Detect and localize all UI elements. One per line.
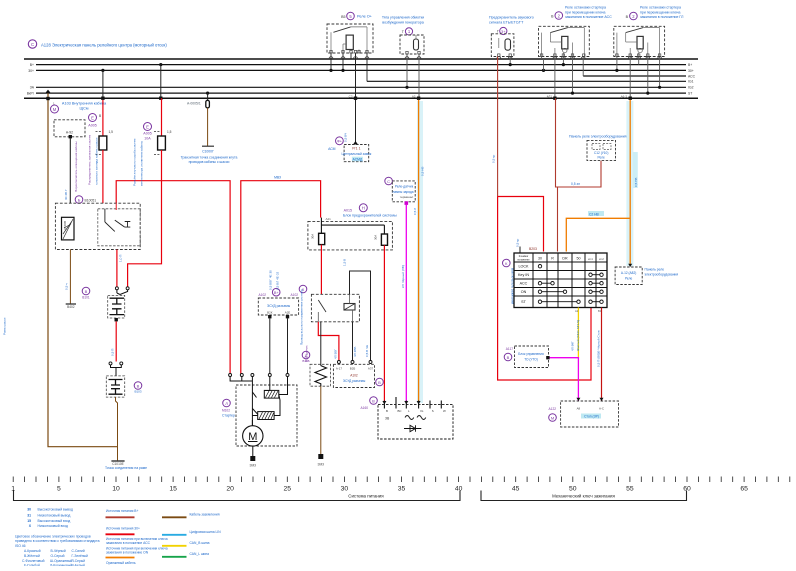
svg-text:В103: В103 (134, 390, 141, 394)
box T label (1) (382, 16, 424, 36)
table header texts (517, 255, 604, 261)
svg-text:МВЗ: МВЗ (274, 175, 281, 179)
node dots relay R1 (329, 69, 332, 72)
svg-text:А8: А8 (577, 407, 581, 411)
table row labels (518, 265, 529, 305)
relay R3 box (614, 26, 665, 56)
svg-text:Е: Е (91, 116, 94, 121)
svg-text:А-12 (А82): А-12 (А82) (621, 271, 636, 275)
svg-text:возбуждения генератора: возбуждения генератора (382, 21, 423, 25)
svg-text:Провод высокого напряжения сис: Провод высокого напряжения системы (300, 288, 304, 345)
svg-text:4Л 98Г: 4Л 98Г (571, 341, 575, 351)
relay R3 label (626, 6, 685, 20)
relay R1 pin stubs to buses (331, 53, 367, 81)
connector box A-92 (54, 120, 85, 137)
wire red horizontal feed (116, 181, 230, 374)
generator box (378, 397, 453, 439)
svg-text:В5: В5 (341, 15, 345, 19)
starter box (236, 385, 297, 446)
svg-text:А2Е: А2Е (285, 311, 291, 315)
svg-text:ЗА: ЗА (30, 86, 35, 90)
svg-text:ЗВ: ЗВ (385, 417, 390, 421)
svg-text:М: М (53, 107, 57, 112)
svg-text:30: 30 (27, 507, 31, 511)
svg-text:15: 15 (27, 519, 31, 523)
box T pin stubs (407, 54, 419, 98)
svg-text:Цифровая шина LIN: Цифровая шина LIN (190, 530, 222, 534)
crossing hops on L1 (329, 57, 662, 59)
svg-text:Key IN: Key IN (518, 273, 529, 277)
legend colour table (22, 549, 88, 567)
svg-text:3+: 3+ (501, 29, 506, 34)
relay A102 box (311, 294, 359, 322)
svg-text:Панель реле: Панель реле (645, 268, 665, 272)
svg-text:4Л1: 4Л1 (547, 95, 553, 99)
fuse F1 body (99, 136, 107, 150)
svg-text:А122: А122 (549, 407, 557, 411)
svg-text:Ш-Оранжевый: Ш-Оранжевый (50, 559, 72, 563)
wire red B101 to C101 (115, 321, 117, 361)
ground point C1010E (111, 460, 124, 462)
svg-text:ON: ON (521, 290, 527, 294)
svg-text:А160: А160 (361, 406, 369, 410)
svg-text:S: S (432, 409, 434, 413)
fuse F2 body (158, 136, 166, 150)
svg-text:4Л 5ВГ: 4Л 5ВГ (334, 349, 338, 359)
ECU connector A102 box (333, 361, 383, 388)
svg-text:А128 Электрическая панель рел: А128 Электрическая панель релейного цент… (41, 43, 167, 48)
svg-text:САN_L шина: САN_L шина (190, 552, 210, 556)
svg-text:Разъём жгутового короба систем: Разъём жгутового короба систем (133, 139, 137, 186)
svg-text:АСМД: АСМД (353, 157, 363, 161)
svg-text:Высокотоковый вход: Высокотоковый вход (38, 519, 71, 523)
starter M102 label (222, 399, 235, 417)
relay R1 box (327, 24, 373, 53)
svg-text:зажигания в положение АСС: зажигания в положение АСС (565, 15, 612, 19)
svg-text:ЭСУД разъемы: ЭСУД разъемы (343, 379, 366, 383)
connector B101 (82, 287, 129, 322)
bus line L3 30+ (36, 69, 686, 71)
svg-text:Ф+: Ф+ (337, 140, 343, 144)
svg-text:40: 40 (455, 486, 463, 493)
svg-text:Рама шасси: Рама шасси (3, 317, 7, 335)
svg-text:вентилятора отопителя кабины: вентилятора отопителя кабины (140, 140, 144, 186)
svg-text:DR: DR (562, 257, 568, 261)
wire coil to A37 (350, 271, 371, 361)
svg-text:Б: Б (78, 197, 81, 202)
starter motor M (243, 420, 263, 446)
svg-text:45: 45 (512, 486, 520, 493)
ignition key table label (503, 247, 538, 305)
wire brown to C1000G (207, 108, 209, 146)
svg-text:А117: А117 (506, 347, 513, 351)
svg-text:Низкотоковый вход: Низкотоковый вход (38, 524, 68, 528)
svg-text:лампы заряда: лампы заряда (392, 190, 413, 194)
svg-text:W: W (443, 409, 446, 413)
svg-text:0,5 НВ: 0,5 НВ (634, 178, 638, 187)
svg-text:терминал: терминал (400, 195, 414, 199)
svg-text:кл.1: кл.1 (588, 258, 593, 261)
svg-text:0,5 В ЧЕ: 0,5 В ЧЕ (365, 345, 369, 357)
svg-text:Г: Г (497, 30, 499, 34)
wire red A015 to generator B (383, 245, 385, 401)
svg-text:КЛ Чёрный (ЛВ): КЛ Чёрный (ЛВ) (401, 265, 405, 288)
bus line L7 ST (36, 92, 686, 94)
ruler numbers (11, 486, 748, 493)
wire red A015 to relay A102 (320, 245, 322, 295)
svg-text:30: 30 (538, 257, 542, 261)
bus line L8 bottom (24, 97, 698, 99)
legend terminal list (27, 507, 73, 528)
svg-text:В101: В101 (82, 296, 90, 300)
highlight band orange IG wire (417, 101, 423, 403)
svg-text:10: 10 (112, 486, 120, 493)
svg-text:ВС: ВС (398, 409, 402, 413)
svg-text:головного взгляда кабины шасси: головного взгляда кабины шасси (95, 137, 99, 185)
svg-text:25: 25 (284, 486, 292, 493)
svg-text:30+: 30+ (28, 69, 34, 73)
svg-text:А-92: А-92 (66, 131, 73, 135)
svg-text:О-Серый: О-Серый (51, 554, 65, 558)
svg-text:сигнала ЕТЬ/ЕТС/ГТ: сигнала ЕТЬ/ЕТС/ГТ (489, 21, 524, 25)
svg-text:ЩСм: ЩСм (80, 107, 89, 111)
svg-text:60: 60 (683, 486, 691, 493)
svg-text:А-17: А-17 (336, 367, 342, 371)
svg-text:5: 5 (57, 486, 61, 493)
svg-text:Точка соединения на раме: Точка соединения на раме (105, 466, 147, 470)
svg-text:приведено в соответствии с тр: приведено в соответствии с требованиями … (15, 539, 100, 543)
svg-text:ТО (УТО): ТО (УТО) (524, 358, 538, 362)
svg-text:ЭСУД разъемы: ЭСУД разъемы (267, 304, 291, 308)
fuse block A015 label (343, 204, 397, 218)
generator A160 label (361, 397, 378, 410)
svg-text:Переключатель освещения кабины: Переключатель освещения кабины (74, 140, 78, 192)
svg-text:АСМ: АСМ (328, 147, 336, 151)
svg-text:30+: 30+ (688, 69, 694, 73)
svg-text:Источник питания В+: Источник питания В+ (106, 509, 138, 513)
svg-text:А102: А102 (291, 293, 299, 297)
svg-text:В1: В1 (598, 309, 602, 313)
svg-text:ЗМЗ: ЗМЗ (318, 463, 325, 467)
svg-text:Реле остановки стартера: Реле остановки стартера (565, 6, 606, 10)
svg-text:0,5 ВВГ 4Е 30: 0,5 ВВГ 4Е 30 (269, 270, 273, 290)
svg-text:С12 (У10): С12 (У10) (594, 151, 608, 155)
bracket ignition key (481, 491, 687, 501)
relay R1 "Реле О+" label (341, 12, 373, 20)
svg-text:Распределитель зажигания систе: Распределитель зажигания систем (88, 135, 92, 185)
svg-text:В: В (99, 114, 101, 118)
svg-text:Стартер: Стартер (222, 414, 235, 418)
svg-text:10А: 10А (144, 137, 151, 141)
bus labels right (688, 63, 696, 96)
ruler ticks (13, 477, 790, 483)
svg-text:Стоп (ЗР): Стоп (ЗР) (584, 415, 599, 419)
svg-text:С-Синий: С-Синий (72, 549, 85, 553)
svg-text:А102: А102 (350, 374, 358, 378)
svg-text:А5: А5 (412, 95, 416, 99)
svg-text:В: В (85, 289, 88, 294)
generator terminal arrows (382, 401, 420, 404)
svg-text:С: С (387, 179, 390, 184)
fuse box 3+ (491, 34, 514, 57)
starter solenoid winding 2 (258, 412, 274, 420)
wire red to key switch 30 (498, 197, 591, 381)
svg-text:20: 20 (226, 486, 234, 493)
connector Pr1 box (ACMD) (328, 137, 372, 162)
svg-text:0,5 ВЛ 4Е 02: 0,5 ВЛ 4Е 02 (276, 272, 280, 290)
ESUD connector box upper (258, 288, 298, 315)
bus line L4 ACC (583, 75, 686, 77)
svg-text:зажигания в положение ГЛ: зажигания в положение ГЛ (640, 15, 684, 19)
svg-text:Реле остановки стартера: Реле остановки стартера (640, 6, 681, 10)
svg-text:С3: С3 (349, 95, 353, 99)
svg-text:В+: В+ (30, 63, 34, 67)
svg-text:кл.2: кл.2 (599, 258, 604, 261)
control unit A117 (504, 346, 549, 368)
svg-text:А015: А015 (344, 208, 352, 212)
wire maroon key to stop box (601, 308, 603, 402)
svg-text:Предохранитель звукового: Предохранитель звукового (489, 16, 534, 20)
svg-text:Источник питания 30+: Источник питания 30+ (106, 526, 140, 530)
wire red main loop to fuse block A015 (241, 181, 321, 374)
svg-text:проводов кабины с шасси: проводов кабины с шасси (189, 160, 230, 164)
svg-text:А2: А2 (575, 309, 579, 313)
svg-text:Тяга управления обмотки: Тяга управления обмотки (382, 16, 424, 20)
wire black from A-92 (69, 138, 71, 203)
wire to Pr1 connector (355, 53, 357, 144)
svg-text:Механический ключ зажигания: Механический ключ зажигания (552, 494, 615, 499)
wire maroon horn fuse drop (497, 57, 499, 197)
bracket power system (14, 491, 461, 501)
svg-text:R: R (551, 257, 554, 261)
svg-text:В: В (372, 398, 375, 403)
svg-text:Желтый (ST#1 ST1.5): Желтый (ST#1 ST1.5) (576, 320, 580, 351)
regulator box C (385, 177, 415, 202)
svg-text:1,5: 1,5 (109, 130, 114, 134)
svg-text:А-Красный: А-Красный (24, 549, 41, 553)
svg-text:В2К: В2К (267, 311, 273, 315)
connector C101 (106, 359, 142, 397)
stop box A122 (549, 398, 619, 427)
svg-text:Транзитная точка соединения жг: Транзитная точка соединения жгута (181, 156, 238, 160)
legend wire samples column 3 (162, 512, 221, 556)
svg-text:В402: В402 (67, 305, 75, 309)
bus line L5 IG1 (367, 80, 686, 82)
svg-text:ВкРг: ВкРг (27, 92, 35, 96)
svg-text:Высокотоковый вывод: Высокотоковый вывод (38, 507, 73, 511)
legend colour code note (15, 534, 100, 548)
svg-text:30А: 30А (311, 234, 315, 239)
svg-text:В203: В203 (529, 247, 537, 251)
contact block hatched (62, 217, 75, 240)
fuse F1 A005 15A label (88, 114, 101, 128)
legend wire samples column 2 (106, 509, 168, 565)
fuse F2 A005 10A label (143, 123, 151, 141)
svg-text:В: В (507, 355, 510, 360)
svg-text:ЗМЗ: ЗМЗ (250, 464, 257, 468)
svg-text:ST: ST (521, 300, 526, 304)
starter internal wiring (230, 377, 287, 427)
svg-text:С2 НВ: С2 НВ (589, 212, 600, 216)
pin marks on component bottoms (330, 50, 661, 56)
svg-text:30: 30 (341, 486, 349, 493)
svg-text:положение: положение (517, 259, 530, 262)
svg-text:А-0005/1: А-0005/1 (187, 102, 201, 106)
table contacts (538, 265, 603, 304)
fuse A-0005/1 on ST wire (206, 92, 209, 95)
svg-text:М: М (551, 415, 554, 420)
wire red fuse F1 drop (101, 69, 104, 72)
svg-text:50: 50 (577, 257, 581, 261)
wire brown to frame point (116, 397, 118, 460)
svg-text:электрооборудования: электрооборудования (645, 272, 679, 276)
wire orange bus to generator IG (418, 100, 420, 401)
ignition switch assembly box B10051 (75, 196, 96, 204)
svg-text:31: 31 (27, 514, 31, 518)
starter terminals (229, 374, 289, 377)
relay panel C12 box (587, 140, 616, 160)
svg-text:Н: Н (362, 206, 365, 211)
svg-text:РТС датчик: РТС датчик (305, 345, 309, 362)
svg-text:при перемещении ключа: при перемещении ключа (565, 10, 605, 14)
wire orange A6-3 (629, 100, 631, 264)
svg-text:50: 50 (569, 486, 577, 493)
svg-text:LOCK: LOCK (518, 265, 529, 269)
svg-text:В+: В+ (688, 63, 692, 67)
wire B2B black (352, 322, 354, 361)
svg-text:30 4В·Г: 30 4В·Г (64, 189, 68, 200)
wire resistor to ground (320, 386, 322, 454)
bus line L6 IG2 (36, 86, 686, 88)
fuse block A015 box (308, 221, 393, 250)
svg-text:зажигания в положение АСС: зажигания в положение АСС (106, 541, 151, 545)
svg-text:В-Чёрный: В-Чёрный (51, 549, 66, 553)
wire brown frame ground left (45, 90, 117, 447)
fuse box 3+ pin stubs (509, 57, 511, 65)
wire magenta to stop box (549, 358, 579, 401)
svg-text:0,5 П (ВВ)В Чёрный Стоп: 0,5 П (ВВ)В Чёрный Стоп (597, 330, 601, 367)
svg-text:САN_В шина: САN_В шина (190, 541, 210, 545)
svg-text:0,5 ВЧ: 0,5 ВЧ (344, 133, 348, 142)
relay box A-12 (615, 264, 678, 285)
relay R2 pin stubs (542, 57, 584, 99)
svg-text:Реле О+: Реле О+ (357, 15, 373, 19)
svg-text:Кабель заземления: Кабель заземления (190, 512, 220, 516)
svg-text:зажигания в положение ОN: зажигания в положение ОN (106, 551, 149, 555)
svg-text:А37: А37 (368, 367, 374, 371)
svg-text:А21: А21 (326, 217, 332, 221)
svg-text:А005: А005 (88, 124, 96, 128)
bus line L2 B+ (36, 64, 686, 66)
svg-text:Оранжевый кабель: Оранжевый кабель (106, 561, 136, 565)
svg-text:Блок управления: Блок управления (518, 352, 544, 356)
relay A102 label (291, 285, 307, 297)
svg-text:С-Фиолетовый: С-Фиолетовый (22, 559, 45, 563)
svg-text:0,5 ч: 0,5 ч (65, 283, 69, 290)
starter ground (252, 446, 254, 456)
wire relay to resistor black (320, 322, 322, 365)
svg-text:М102: М102 (222, 409, 230, 413)
svg-text:Реле: Реле (598, 156, 606, 160)
svg-text:АСС: АСС (520, 282, 528, 286)
svg-text:Л-Серый: Л-Серый (72, 559, 86, 563)
svg-text:В: В (386, 409, 388, 413)
relay R2 label (551, 6, 612, 20)
wires ESUD to starter (268, 315, 271, 318)
fuse 30A left (319, 233, 325, 244)
svg-text:Рг1 1: Рг1 1 (352, 146, 360, 150)
svg-text:Система питания: Система питания (348, 494, 384, 499)
wire orange branch to key DR (566, 218, 630, 251)
svg-text:В: В (137, 383, 140, 388)
svg-text:0,5 зл: 0,5 зл (571, 182, 580, 186)
wire red F2 to loop (128, 150, 162, 287)
wires below switch box (69, 250, 71, 304)
svg-text:А100В: А100В (63, 221, 67, 230)
svg-text:ISO 46: ISO 46 (15, 544, 26, 548)
A015 internal bus (321, 218, 384, 234)
svg-text:В2Б: В2Б (350, 367, 356, 371)
fuse 30A right (381, 234, 387, 245)
svg-text:А005: А005 (143, 132, 151, 136)
wire red fuse F2 drop (159, 63, 162, 66)
svg-text:В+: В+ (274, 291, 280, 295)
wire relay A102 out red (318, 322, 339, 361)
svg-text:35: 35 (398, 486, 406, 493)
svg-text:Реле-датчик: Реле-датчик (395, 185, 414, 189)
svg-text:0,5 кр: 0,5 кр (492, 154, 496, 163)
relay R2 box (539, 26, 590, 56)
svg-text:Блок предохранителей системы: Блок предохранителей системы (343, 213, 397, 217)
starter solenoid winding 1 (264, 390, 279, 398)
svg-text:IG2: IG2 (688, 86, 694, 90)
svg-text:А6-3: А6-3 (621, 95, 628, 99)
ignition key contact table (514, 253, 607, 308)
svg-text:ST: ST (688, 92, 692, 96)
header label A128 (28, 40, 167, 48)
svg-text:Низкотоковый вывод: Низкотоковый вывод (38, 514, 71, 518)
svg-text:55: 55 (626, 486, 634, 493)
svg-text:АСС: АСС (688, 74, 696, 78)
resistor PTC box (302, 351, 330, 386)
svg-text:0,5 Л: 0,5 Л (413, 208, 417, 215)
svg-text:0,5 кр: 0,5 кр (516, 238, 520, 247)
svg-text:Л: Л (225, 401, 228, 406)
svg-text:30А: 30А (374, 235, 378, 240)
svg-text:В: В (378, 380, 381, 385)
bus line L1 top (24, 58, 698, 60)
svg-text:4Л 2ВБ: 4Л 2ВБ (353, 347, 357, 357)
svg-text:В-Жёлтый: В-Жёлтый (24, 554, 40, 558)
svg-text:Центральный замок: Центральный замок (342, 152, 372, 156)
svg-text:С1000Г: С1000Г (202, 150, 214, 154)
vertical wire labels (3, 133, 601, 367)
wire magenta to generator L (405, 201, 409, 205)
svg-text:1,5 В: 1,5 В (343, 259, 347, 266)
svg-text:65: 65 (740, 486, 748, 493)
relay R3 pin stubs (617, 57, 660, 99)
switch contact inside (105, 203, 130, 231)
svg-text:Г-Зелёный: Г-Зелёный (72, 554, 89, 558)
label A103 cab panel (51, 102, 107, 114)
box T (exciter winding tap) (400, 35, 424, 54)
svg-text:А103 Внутренняя кабина: А103 Внутренняя кабина (62, 102, 107, 106)
svg-text:Панель реле электрооборудовани: Панель реле электрооборудования (569, 135, 627, 139)
svg-text:0,5 П: 0,5 П (111, 349, 115, 356)
fuse box 3+ label (489, 16, 534, 35)
svg-text:А-С: А-С (599, 407, 604, 411)
wire maroon AM2 drop (556, 98, 602, 187)
